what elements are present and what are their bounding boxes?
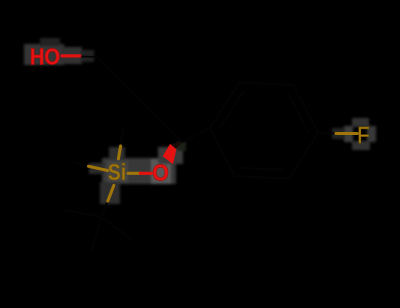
aromatic inner bonds [240, 168, 284, 170]
svg-text:F: F [357, 122, 369, 149]
gold bonds (silicon / fluorine halves) [89, 134, 358, 202]
wire Si-methyl-left carbon half [75, 163, 92, 167]
wire O-C1 carbon half [80, 55, 98, 58]
jpeg halo artifacts [24, 38, 376, 204]
stereo wedge red half [163, 144, 177, 164]
ghost carbon skeleton (near-black) [65, 56, 336, 253]
wire C3-ipso [182, 128, 210, 142]
bond Si-O gold half [128, 172, 140, 175]
svg-text:Si: Si [108, 159, 126, 185]
benzene ring [210, 83, 318, 179]
wire Si-methyl-up carbon half [121, 129, 124, 146]
wire C1-C2 [97, 57, 140, 100]
svg-text:O: O [152, 160, 169, 186]
wire C2-C3 [140, 100, 183, 143]
bond HO-C red half [62, 54, 80, 57]
wire ring-F carbon half [318, 132, 336, 135]
bond Si-methyl-up gold half [118, 146, 120, 159]
wedge carbon half (dark) [170, 142, 183, 150]
bond Si-tBu gold half [108, 186, 114, 202]
tBu methyls [65, 210, 102, 217]
wire Si-tBu carbon half [102, 201, 108, 217]
red bonds (oxygen halves) [62, 56, 151, 173]
bond Si-methyl-left gold half [89, 166, 108, 170]
svg-text:HO: HO [30, 43, 60, 70]
bond Si-O red half [140, 172, 151, 175]
bond F gold half [336, 132, 357, 135]
